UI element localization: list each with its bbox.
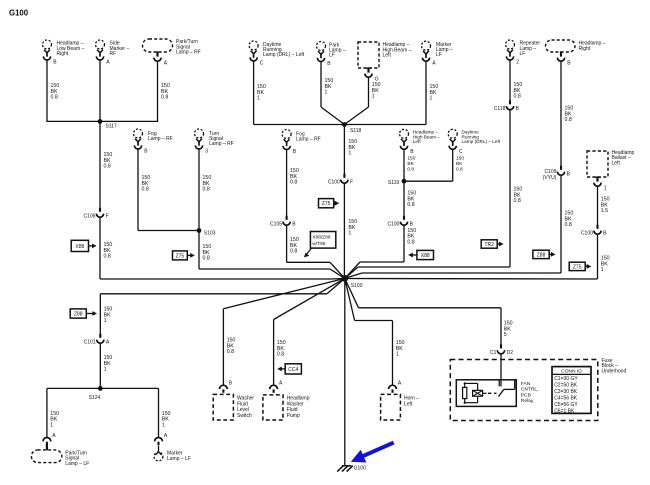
lamp: Daytime Running Lamp (DRL) - Left (top) (249, 41, 305, 67)
wire 150 BK 1 (DRL Left to S118) (254, 61, 345, 125)
svg-text:C105: C105 (270, 222, 282, 228)
svg-text:F: F (350, 180, 353, 186)
connector C105 pin B (270, 216, 296, 228)
label box X88/Z88 w/T96 (304, 232, 336, 258)
label box TR2 (481, 240, 503, 248)
component: FAN CNTRL PCB Relay (box) (456, 380, 538, 407)
wire 150 BK 1 (C100 to S100) (344, 183, 357, 278)
svg-text:0.8: 0.8 (227, 349, 234, 355)
svg-text:150: 150 (407, 156, 415, 162)
svg-text:Lamp (DRL) – Left: Lamp (DRL) – Left (462, 139, 501, 144)
label box X88 (left) (71, 240, 96, 251)
svg-text:FAN: FAN (521, 381, 531, 387)
connector C118 pin B (494, 100, 520, 112)
wire (S100 to C101 branch) (100, 278, 344, 337)
svg-text:TR2: TR2 (484, 242, 494, 248)
svg-text:0.8: 0.8 (51, 95, 58, 101)
wire 150 BK 0.8 (S100 to Washer Fluid Level Switch) (223, 278, 344, 385)
wire 150 BK 0.8 (DRL Left to S119) (404, 149, 464, 181)
svg-text:C118: C118 (494, 106, 506, 112)
lamp: Headlamp - High Beam - Left (lamp) (400, 129, 441, 155)
svg-text:Left: Left (404, 401, 413, 407)
wire (S100 to ground G100) (344, 278, 346, 465)
svg-text:0.8: 0.8 (277, 352, 284, 358)
svg-text:C6=1 BK: C6=1 BK (554, 408, 575, 414)
svg-text:0.8: 0.8 (290, 180, 297, 186)
wire 150 BK 0.8 (S100 to Headlamp Washer Fluid Pump) (274, 278, 345, 385)
svg-text:w/T96: w/T96 (312, 241, 325, 247)
svg-text:Left: Left (383, 53, 392, 59)
svg-text:LF: LF (436, 52, 442, 58)
label box Z75 (center) (319, 199, 340, 208)
svg-text:S103: S103 (204, 231, 216, 237)
wire 150 BK 0.8 (Headlamp Right to C109) (561, 61, 573, 169)
lamp: Turn Signal Lamp - RF (195, 129, 234, 155)
svg-text:G100: G100 (354, 465, 366, 471)
lamp: Headlamp - Right (546, 40, 606, 66)
label box X88 (right) (408, 250, 433, 259)
svg-text:1: 1 (348, 231, 351, 237)
relay actuating dashed link (488, 392, 497, 394)
wire label 150 BK 1 (above C101) (104, 307, 113, 324)
svg-text:CNTRL,: CNTRL, (521, 387, 539, 393)
wire 150 BK 0.8 (C106 to S100) (100, 217, 345, 279)
svg-text:0.8: 0.8 (104, 254, 111, 260)
svg-text:0.8: 0.8 (514, 94, 521, 100)
svg-text:Z75: Z75 (573, 264, 582, 270)
svg-text:Lamp – RF: Lamp – RF (148, 136, 173, 142)
svg-text:S100: S100 (351, 283, 363, 289)
wire 150 BK 0.8 (S117 to C106) (100, 121, 112, 211)
svg-text:1: 1 (257, 96, 260, 102)
svg-text:LF: LF (329, 53, 335, 59)
relay coil resistor (463, 382, 467, 404)
connector pin A (Marker LF) (155, 433, 168, 445)
svg-text:F: F (106, 214, 109, 220)
svg-text:S117: S117 (106, 124, 118, 130)
svg-text:1: 1 (104, 367, 107, 373)
wire 150 BK 1 (S118 to C100) (344, 125, 357, 178)
svg-text:Z75: Z75 (322, 201, 331, 207)
svg-text:1: 1 (601, 267, 604, 273)
svg-text:Underhood: Underhood (602, 368, 627, 374)
svg-text:BK: BK (407, 161, 414, 167)
wire (C1 into Fan Control Relay) (500, 354, 502, 387)
svg-text:Z88: Z88 (74, 311, 83, 317)
svg-text:0.8: 0.8 (407, 239, 414, 245)
wire 150 BK 1 (Marker Lamp LF to S118) (344, 61, 438, 124)
svg-text:3: 3 (205, 149, 208, 155)
svg-text:5: 5 (504, 332, 507, 338)
junction S118 (342, 122, 362, 134)
svg-text:Lamp – LF: Lamp – LF (65, 461, 89, 467)
wire 150 BK 1 (Park Lamp LF to S118) (321, 61, 344, 124)
svg-text:Z75: Z75 (176, 253, 185, 259)
wire 150 BK 1 (S124 to Marker LF) (159, 388, 171, 437)
svg-text:C100: C100 (328, 180, 340, 186)
connector C101 pin A (84, 334, 110, 346)
svg-text:C1=30 GY: C1=30 GY (554, 376, 578, 382)
svg-text:0.8: 0.8 (565, 117, 572, 123)
lamp: Side Marker - RF (96, 40, 130, 66)
wire 150 BK 0.8 (S103 to S100) (199, 231, 345, 279)
svg-text:1: 1 (396, 352, 399, 358)
junction S103 (197, 228, 216, 237)
svg-text:X88: X88 (75, 244, 84, 250)
lamp: Marker Lamp - LF (top) (422, 41, 453, 66)
component: Fuse Block - Underhood (outline) (450, 358, 626, 421)
svg-text:RF: RF (110, 51, 117, 57)
svg-text:0.8: 0.8 (203, 187, 210, 193)
svg-text:Lamp – RF: Lamp – RF (296, 136, 321, 142)
ground G100 (337, 465, 366, 471)
relay switch (499, 380, 515, 397)
wire 150 BK 0.8 (Park/Turn RF to S117) (158, 61, 170, 121)
svg-text:C: C (459, 149, 463, 155)
connector C1 terminal D2 (490, 344, 513, 356)
wire 150 BK 1 (C101 to S124) (100, 343, 112, 388)
svg-text:S119: S119 (388, 180, 400, 186)
svg-text:C1: C1 (490, 350, 497, 356)
svg-text:Lamp – LF: Lamp – LF (167, 456, 191, 462)
junction S117 (98, 119, 117, 130)
svg-text:2: 2 (516, 60, 519, 66)
svg-text:1: 1 (372, 94, 375, 100)
junction S119 (388, 179, 407, 186)
svg-text:1: 1 (604, 185, 607, 191)
svg-text:1: 1 (104, 318, 107, 324)
svg-text:Switch: Switch (237, 413, 252, 419)
svg-text:0.8: 0.8 (203, 256, 210, 262)
wire S117 bus (46, 120, 158, 122)
wire 150 BK 0.8 (Headlamp Low Beam Right to S117) (47, 60, 59, 122)
svg-text:150: 150 (456, 156, 464, 162)
title G100 (9, 9, 29, 18)
wire 150 BK 1.5 (Ballast to C100) (598, 186, 610, 228)
svg-text:Left: Left (413, 139, 422, 144)
svg-text:Right: Right (57, 51, 69, 57)
svg-text:C100: C100 (387, 222, 399, 228)
lamp: Fog Lamp - RF (first) (134, 129, 173, 155)
svg-text:LF: LF (520, 51, 526, 57)
svg-text:0.8: 0.8 (407, 167, 414, 173)
wire 150 BK 0.8 (Repeater Lamp to C118) (510, 60, 522, 104)
svg-text:1: 1 (430, 96, 433, 102)
svg-text:CONN ID: CONN ID (561, 369, 582, 375)
svg-text:0.8: 0.8 (456, 167, 463, 173)
wire 150 BK 0.8 (C109 to S100) (345, 175, 574, 278)
svg-text:1: 1 (325, 90, 328, 96)
svg-text:1: 1 (162, 422, 165, 428)
connector C106 pin F (83, 208, 108, 220)
wire (Side Marker RF to S117) (99, 60, 101, 122)
connector pin A (Horn) (389, 381, 402, 393)
wire S124 bus (47, 387, 159, 389)
wire 150 BK 1 (S124 to Park/Turn LF) (47, 388, 59, 437)
svg-text:0.8: 0.8 (161, 95, 168, 101)
component: Horn - Left (381, 394, 420, 420)
component: Washer Fluid Level Switch (213, 394, 254, 420)
component: Headlamp Ballast - Left (587, 150, 635, 191)
wire 150 BK 1 (Headlamp High Beam Left to S118) (344, 77, 380, 124)
svg-text:0.8: 0.8 (142, 187, 149, 193)
svg-text:BK: BK (456, 161, 463, 167)
connector C100 pin B (third) (581, 225, 607, 237)
svg-text:X88: X88 (421, 253, 430, 259)
svg-text:S124: S124 (89, 395, 101, 401)
connector C100 pin B (second) (387, 216, 413, 228)
svg-text:Lamp – RF: Lamp – RF (209, 141, 234, 147)
svg-text:C106: C106 (83, 214, 95, 220)
svg-text:G100: G100 (9, 9, 29, 18)
label box Z88 (lower left) (70, 309, 97, 318)
junction S100 (341, 275, 362, 289)
lamp: Park Lamp - LF (317, 42, 346, 68)
wire 150 BK 0.8 (Headlamp High Beam Left to S119) (404, 149, 416, 181)
connector pin B (Washer switch) (220, 381, 233, 393)
svg-text:1.5: 1.5 (601, 208, 608, 214)
connector C100 pin F (328, 174, 353, 186)
connector C109 (VYU) pin B (543, 166, 571, 181)
svg-text:0.8: 0.8 (407, 202, 414, 208)
lamp: Park/Turn Signal Lamp - LF (31, 445, 89, 467)
svg-text:1: 1 (50, 422, 53, 428)
wire 150 BK 0.8 (Fog Lamp RF to C105) (287, 149, 299, 219)
component: Headlamp - High Beam - Left (ballast box) (358, 42, 412, 82)
svg-text:C100: C100 (581, 231, 593, 237)
svg-text:CC4: CC4 (288, 367, 298, 373)
lamp: Headlamp - Low Beam - Right (43, 40, 85, 66)
svg-text:C101: C101 (84, 340, 96, 346)
svg-text:X88/Z88: X88/Z88 (312, 234, 330, 240)
svg-text:PCB: PCB (521, 392, 531, 398)
lamp: Repeater Lamp - LF (506, 40, 541, 66)
svg-text:Z88: Z88 (537, 252, 546, 258)
wire 150 BK 1 (C100 to S100) (345, 234, 610, 279)
lamp: Daytime Running Lamp (DRL) - Left (lamp) (448, 129, 501, 155)
wire 150 BK 1 (S100 to Horn Left) (345, 278, 405, 385)
lamp: Fog Lamp - RF (second) (282, 130, 321, 156)
junction S124 (89, 386, 103, 401)
relay coil (solenoid) (465, 383, 487, 402)
connector pin A (Park/Turn LF) (43, 433, 56, 445)
blue pointer arrow (351, 443, 394, 463)
svg-text:Pump: Pump (287, 413, 300, 419)
svg-text:0.8: 0.8 (104, 164, 111, 170)
lamp: Park/Turn Signal Lamp - RF (143, 39, 201, 66)
svg-text:(VYU): (VYU) (543, 175, 557, 181)
label box Z88 (right) (533, 250, 556, 258)
svg-text:0.8: 0.8 (290, 249, 297, 255)
svg-text:0.8: 0.8 (514, 198, 521, 204)
svg-text:Lamp (DRL) – Left: Lamp (DRL) – Left (263, 52, 305, 58)
svg-text:Lamp – RF: Lamp – RF (176, 50, 201, 56)
svg-text:Right: Right (579, 46, 591, 52)
wire 150 BK 5 (S100 to Fuse Block) (345, 278, 513, 348)
svg-text:C4=56 BK: C4=56 BK (554, 395, 578, 401)
svg-text:C: C (260, 61, 264, 67)
svg-text:S118: S118 (350, 128, 362, 134)
label box Z75 (right) (569, 262, 591, 270)
wire 150 BK 0.8 (Turn Signal RF to S103) (199, 149, 211, 231)
svg-text:C2=50 BK: C2=50 BK (554, 382, 578, 388)
wire 150 BK 0.8 (C100 to S100) (345, 225, 416, 278)
wire 150 BK 0.8 (Fog Lamp RF to S103) (138, 149, 199, 231)
connector pin A (Washer pump) (270, 381, 283, 393)
svg-text:0.8: 0.8 (565, 222, 572, 228)
svg-text:Relay: Relay (521, 398, 534, 404)
CONN ID table (552, 367, 591, 415)
wire 150 BK 0.8 (S119 to C100) (404, 181, 416, 220)
component: Headlamp Washer Fluid Pump (263, 395, 310, 420)
svg-text:Left: Left (612, 160, 621, 166)
label box CC4 (277, 364, 301, 374)
lamp: Marker Lamp - LF (bottom) (154, 446, 191, 462)
svg-text:D2: D2 (507, 350, 514, 356)
svg-text:1: 1 (348, 151, 351, 157)
svg-text:C3=30 BK: C3=30 BK (554, 389, 578, 395)
wire 150 BK 0.8 (C118 to S100) (345, 110, 523, 279)
wire 150 BK 0.8 (C105 to S100) (287, 225, 345, 278)
svg-text:C5=56 GY: C5=56 GY (554, 402, 578, 408)
label box Z75 (left) (173, 251, 195, 260)
